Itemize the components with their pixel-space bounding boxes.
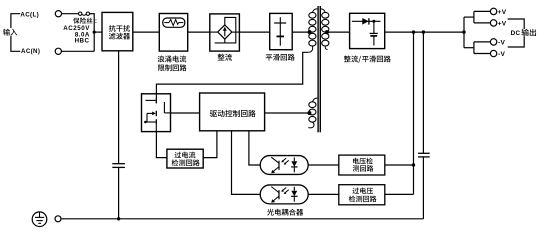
capacitor Y-cap — [112, 163, 125, 165]
wire to -V2 — [474, 53, 491, 55]
voltage detect box 电压检测回路 — [339, 155, 385, 175]
svg-text:HBC: HBC — [75, 38, 90, 45]
bridge lead right — [232, 31, 240, 33]
label DC输出 — [510, 29, 539, 36]
label 滤波器 — [109, 33, 116, 40]
DC output bracket — [508, 19, 525, 47]
rectifier box 整流 — [210, 14, 240, 51]
label 整流/平滑回路 — [344, 56, 351, 63]
terminal AC(N) — [55, 48, 61, 54]
junction input bus — [93, 30, 96, 33]
label 检测回路(oc) — [172, 159, 179, 166]
terminal +V2 — [490, 20, 496, 26]
label 输入 — [2, 28, 18, 36]
label 测回路 — [353, 165, 359, 171]
output bus vertical — [463, 17, 465, 48]
junction ground-Ycap — [117, 217, 120, 220]
wire filter to ground cap — [118, 51, 120, 163]
diode D1 — [352, 20, 381, 22]
svg-text:DC: DC — [511, 30, 521, 37]
transformer primary winding — [309, 12, 316, 18]
junction out bus — [462, 30, 465, 33]
capacitor C1 — [279, 17, 281, 46]
wire opto1 to voltage-det — [308, 164, 339, 166]
svg-text:AC(L): AC(L) — [20, 11, 39, 18]
junction diode-cap — [372, 20, 375, 23]
label 限制回路 — [158, 65, 164, 72]
svg-text:-V: -V — [498, 39, 505, 46]
wire to +V1 — [474, 10, 491, 12]
overvoltage detect box 过电压检测回路 — [339, 185, 385, 205]
bridge arrow — [224, 30, 226, 37]
wire L-N vertical bus — [93, 13, 95, 51]
wire sense1 vertical — [413, 32, 415, 194]
junction primary — [308, 30, 312, 34]
terminal AC(L) — [55, 11, 61, 17]
wire driver to overcurrent — [203, 131, 217, 158]
optocoupler U2 — [260, 185, 308, 204]
junction aux — [307, 111, 311, 115]
label 驱动控制回路 — [210, 110, 217, 117]
EMI filter box 抗干扰滤波器 — [102, 12, 133, 50]
wire N — [62, 50, 95, 52]
wire secondary to outrect — [327, 31, 350, 33]
transformer core — [317, 6, 318, 132]
wire sense2 vertical lower — [422, 157, 424, 219]
smoothing box 平滑回路 — [270, 13, 293, 49]
wire Y-cap to ground bus — [118, 167, 120, 218]
wire driver to opto2 — [232, 131, 261, 195]
ground terminal circle — [55, 216, 61, 222]
wire to -V1 — [474, 41, 491, 43]
wire driver to opto1 — [249, 131, 260, 165]
label 电压检 — [353, 158, 359, 164]
capacitor C2 — [373, 21, 375, 33]
terminal +V1 — [490, 8, 496, 14]
svg-text:-V: -V — [498, 51, 505, 58]
wire smoothing to primary — [292, 31, 309, 33]
label 过电压 — [353, 188, 360, 194]
label 平滑回路 — [266, 54, 273, 60]
bridge stub — [224, 39, 226, 43]
output rectifier box 整流/平滑回路 — [350, 13, 385, 48]
inrush limiter box 浪涌电流限制回路 — [159, 14, 187, 52]
thermistor RT1 — [163, 18, 185, 27]
bridge hook — [215, 17, 236, 43]
capacitor C3 — [418, 152, 430, 154]
junction secondary — [325, 30, 329, 34]
transformer aux winding — [309, 102, 316, 108]
transformer secondary winding — [322, 12, 329, 18]
wire L to fuse — [62, 13, 79, 15]
wire opto2 to overvoltage-det — [308, 193, 339, 195]
label 整流 — [218, 54, 225, 61]
wire mosfet source — [156, 132, 167, 158]
wire +V bracket — [473, 11, 475, 23]
overcurrent box 过电流检测回路 — [167, 149, 203, 168]
label 过电流 — [175, 152, 182, 158]
wire sense2 vertical upper — [422, 32, 424, 153]
svg-text:+V: +V — [498, 20, 507, 27]
label 浪涌电流 — [158, 55, 165, 62]
junction sense1 — [412, 30, 415, 33]
mosfet box — [142, 94, 171, 132]
svg-text:AC(N): AC(N) — [21, 48, 40, 55]
wire outrect to terminals — [385, 31, 464, 33]
label 抗干扰 — [109, 25, 116, 32]
wire filter to inrush — [133, 31, 160, 33]
svg-text::: : — [95, 18, 97, 25]
junction voltage-det — [412, 163, 415, 166]
wire inrush to rectifier — [188, 31, 210, 33]
wire fuse to corner — [90, 13, 95, 15]
bridge diamond — [218, 25, 232, 39]
wire +V stub — [464, 16, 474, 18]
ground bus — [61, 218, 424, 220]
wire rectifier to smoothing — [239, 31, 269, 33]
svg-text:+V: +V — [498, 9, 507, 16]
wire driver to aux — [265, 112, 310, 114]
optocoupler U1 — [260, 156, 308, 175]
wire voltage-det — [385, 164, 414, 166]
wire primary to mosfet drain — [156, 52, 308, 94]
wire overvoltage-det — [385, 193, 414, 195]
wire -V stub — [464, 47, 474, 49]
label 光电耦合器 — [267, 209, 274, 216]
wire mosfet gate to driver — [171, 112, 200, 114]
bridge lead left — [210, 31, 218, 33]
fuse F1 — [79, 12, 82, 15]
wire -V bracket — [473, 42, 475, 54]
protective earth symbol — [32, 212, 47, 227]
terminal -V1 — [490, 39, 496, 45]
driver box 驱动控制回路 — [200, 93, 265, 131]
junction sense2 — [422, 30, 425, 33]
mosfet Q1 — [155, 94, 157, 98]
input bracket 输入 — [11, 14, 20, 52]
wire bus to filter — [94, 31, 102, 33]
wire to +V2 — [474, 22, 491, 24]
fuse label 保险丝 — [73, 18, 79, 24]
terminal -V2 — [490, 50, 496, 56]
label 检测回路(ov) — [349, 196, 356, 203]
